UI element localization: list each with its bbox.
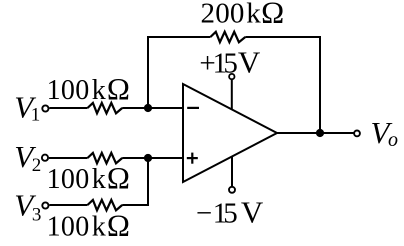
svg-text:−: − bbox=[196, 198, 212, 230]
resistor R2 zigzag bbox=[88, 153, 123, 163]
wire R2 to op-amp non-inverting input bbox=[122, 157, 183, 159]
op-amp inverting input minus symbol bbox=[187, 107, 199, 109]
wire V2 to R2 bbox=[49, 157, 88, 159]
junction node output / feedback bbox=[316, 129, 324, 137]
node Vo output terminal bbox=[354, 131, 360, 137]
svg-text:o: o bbox=[388, 129, 398, 151]
node V1 input terminal bbox=[42, 105, 48, 111]
wire feedback left vertical and top-left segment bbox=[148, 37, 210, 108]
junction node A (feedback / V1) bbox=[144, 104, 152, 112]
svg-text:V: V bbox=[241, 195, 264, 230]
svg-text:2: 2 bbox=[32, 155, 42, 176]
resistor R1 zigzag bbox=[88, 103, 123, 113]
wire V1 to R1 bbox=[49, 107, 87, 109]
node V2 input terminal bbox=[42, 155, 48, 161]
op-amp non-inverting input plus symbol bbox=[187, 157, 198, 159]
svg-text:5: 5 bbox=[223, 198, 238, 230]
wire -15V supply stub bbox=[231, 157, 233, 187]
resistor R3 zigzag bbox=[88, 200, 123, 210]
node +15V terminal bbox=[229, 74, 234, 79]
wire +15V supply stub bbox=[231, 80, 233, 110]
svg-text:200kΩ: 200kΩ bbox=[201, 0, 285, 30]
svg-text:100kΩ: 100kΩ bbox=[47, 71, 131, 106]
svg-text:3: 3 bbox=[32, 205, 42, 226]
wire R1 to op-amp inverting input bbox=[122, 107, 183, 109]
svg-text:V: V bbox=[238, 44, 261, 79]
junction node B (V2 / V3) bbox=[144, 154, 152, 162]
svg-text:1: 1 bbox=[31, 105, 41, 126]
svg-text:100kΩ: 100kΩ bbox=[47, 160, 131, 195]
op-amp U1 triangle bbox=[183, 84, 277, 182]
node -15V terminal bbox=[229, 187, 235, 193]
wire op-amp output bbox=[277, 132, 354, 134]
wire feedback top-right segment and right vertical bbox=[245, 37, 320, 133]
resistor Rf zigzag bbox=[210, 32, 245, 42]
svg-text:100kΩ: 100kΩ bbox=[47, 208, 131, 243]
node V3 input terminal bbox=[42, 202, 48, 208]
wire V3 to R3 bbox=[49, 204, 87, 206]
wire R3 up to node B bbox=[122, 158, 148, 205]
svg-text:5: 5 bbox=[223, 47, 238, 79]
